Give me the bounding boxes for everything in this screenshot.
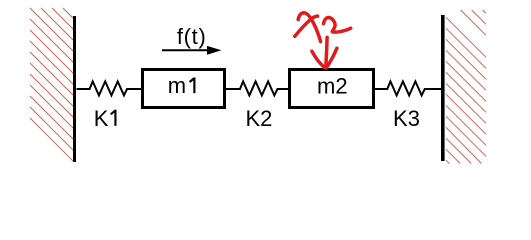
label K1: digit 1 (stem) [114,110,116,126]
right wall hatching [446,10,486,164]
svg-text:K: K [94,106,109,131]
label m1: digit 1 (stem) [193,77,195,93]
label K1: digit 1 (flag) [111,111,115,115]
red annotation: arrowhead left wing [312,51,325,67]
label m1: digit 1 (flag) [190,79,194,83]
mass m1 box [143,70,225,108]
svg-text:m: m [168,73,186,98]
red annotation: arrow shaft [326,37,327,68]
svg-text:f(t): f(t) [177,24,207,49]
svg-text:K3: K3 [393,106,420,131]
svg-text:m2: m2 [317,73,348,98]
left wall line [73,16,76,162]
red annotation: letter x stroke 1 (hump + descent) [298,13,320,42]
spring K2 [226,81,288,95]
red annotation: subscript 2 (loop) [324,17,336,31]
spring K3 [375,81,442,95]
svg-text:K2: K2 [245,106,272,131]
spring K1 [77,81,142,95]
force arrow f(t) shaft [162,49,209,51]
force arrow f(t) head [207,46,222,55]
red annotation: subscript 2 (tail) [332,28,350,32]
mass m2 box [290,70,374,108]
right wall line [441,15,445,161]
left wall hatching [30,8,74,161]
red annotation: letter x stroke 2 (rising slash) [295,16,318,36]
red annotation: arrowhead right wing [327,48,337,67]
